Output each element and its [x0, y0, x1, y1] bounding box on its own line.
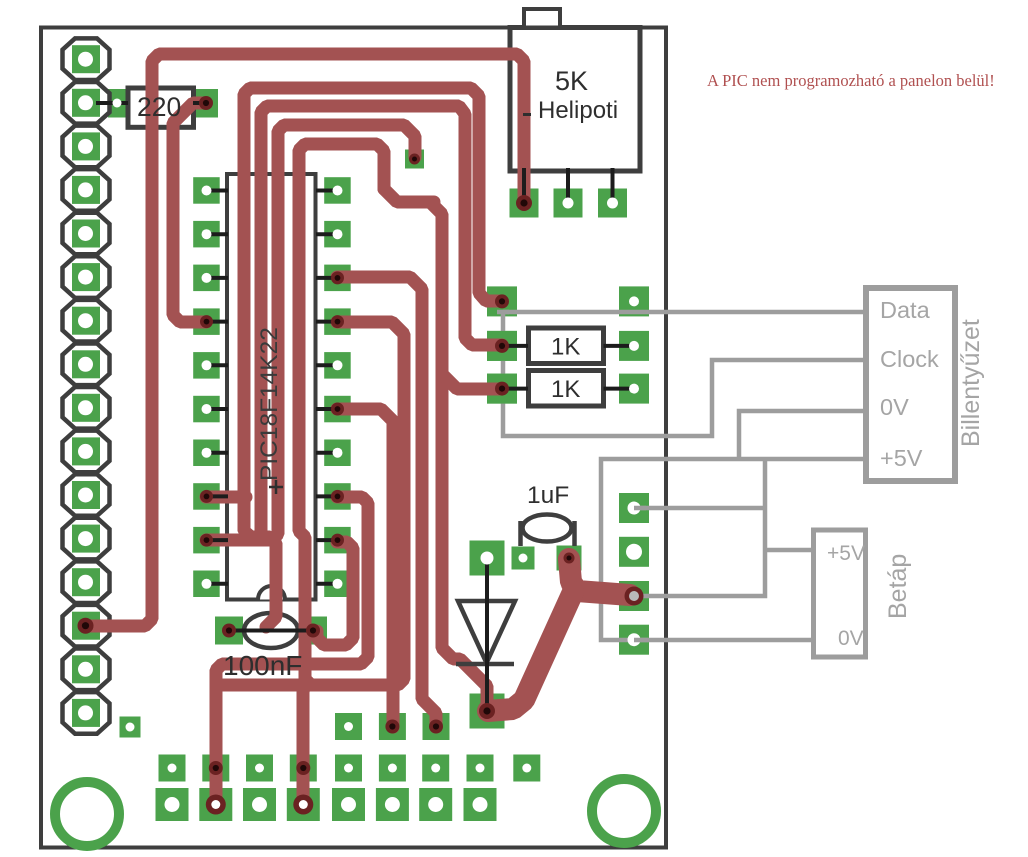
label origin cross	[269, 480, 283, 494]
hole SV1-8	[78, 357, 93, 372]
capacitor C1 1uF outline	[523, 515, 572, 542]
wire branch KL3	[442, 374, 502, 389]
connector SV1 16 octagonal pads	[63, 38, 110, 733]
plated hole r727b	[385, 720, 399, 734]
pad row768-172	[159, 755, 186, 782]
pad row805-259	[243, 788, 276, 821]
wire arc2 KL1 chain hook	[244, 88, 502, 627]
hole r805-348	[341, 797, 356, 812]
pad IC-L8	[193, 483, 220, 510]
pad row805-392	[376, 788, 409, 821]
plated hole PWR3	[625, 587, 644, 606]
plated hole KL1	[495, 294, 509, 308]
plated hole c1b	[564, 553, 575, 564]
svg-text:Data: Data	[880, 297, 931, 323]
pad IC-R7	[324, 440, 351, 467]
node Betap box	[814, 530, 866, 657]
capacitor C2 100nF outline	[244, 613, 298, 648]
pad KL3 re-emit over gray	[487, 374, 517, 404]
wire arc3 KL2 strand	[261, 106, 502, 535]
wire +5V betap line	[765, 548, 813, 553]
pad IC-R3	[324, 265, 351, 292]
wire IC-L8 join	[206, 491, 246, 504]
plated hole c2b	[306, 624, 320, 638]
pad IC-L10	[193, 571, 220, 598]
wire H685 left	[218, 679, 330, 692]
pad IC-R10	[324, 571, 351, 598]
pad heli3	[598, 189, 627, 218]
hole SV1-9	[78, 400, 93, 415]
pad cap1uF-b	[557, 546, 582, 571]
plated hole c2a	[222, 624, 236, 638]
plated hole r768-216	[209, 761, 223, 775]
wire 220 to IC-L4	[173, 103, 206, 322]
pad diode bottom	[470, 694, 505, 729]
pad row805-348	[332, 788, 365, 821]
pad IC-L2	[193, 221, 220, 248]
hole SV1-10	[78, 444, 93, 459]
plated hole heli1	[516, 195, 532, 211]
wire IC-R9 to 100nF-b	[317, 542, 353, 645]
pad IC-L9	[193, 527, 220, 554]
potentiometer 5K Helipoti body	[510, 28, 640, 172]
pad IC-R6	[324, 396, 351, 423]
hole PWR4	[628, 633, 641, 646]
pad row768-526	[513, 755, 540, 782]
hole SV1-3	[78, 139, 93, 154]
plated hole KL3	[495, 382, 509, 396]
pad row768-392	[379, 755, 406, 782]
hole SV1-16	[78, 705, 93, 720]
pad row768-215	[202, 755, 229, 782]
pad cap1uF-a	[512, 547, 535, 570]
pad KL2	[487, 331, 517, 361]
pad heli2	[554, 189, 583, 218]
plated hole IC-R9	[331, 534, 344, 547]
hole SV1-6	[78, 270, 93, 285]
component leads	[96, 103, 634, 631]
hole r805-480	[473, 797, 488, 812]
pad IC-R1	[324, 177, 351, 204]
pad row768-259	[246, 755, 273, 782]
pad via left	[120, 717, 141, 738]
svg-text:1K: 1K	[551, 334, 580, 361]
pad row727-436	[423, 713, 450, 740]
label Helipoti dash	[523, 113, 531, 116]
hole IC-R10	[333, 579, 343, 589]
svg-text:220: 220	[137, 92, 181, 122]
plated hole IC-R8	[331, 490, 344, 503]
pad IC-R4	[324, 308, 351, 335]
hole IC-R5	[333, 360, 343, 370]
hole r768-259	[255, 764, 264, 773]
hole r768-392	[388, 764, 397, 773]
pad via top	[405, 150, 424, 169]
hole IC-L6	[202, 404, 212, 414]
diode D1	[456, 601, 515, 664]
plated hole r727c	[429, 720, 443, 734]
pad KL3	[487, 374, 517, 404]
svg-text:A PIC nem programozható a pane: A PIC nem programozható a panelon belül!	[707, 71, 995, 90]
wire 0V betap line	[634, 638, 813, 643]
pad IC-L5	[193, 352, 220, 379]
hole r805-392	[385, 797, 400, 812]
hole IC-L2	[202, 229, 212, 239]
hole heli2	[563, 198, 574, 209]
svg-text:Betáp: Betáp	[884, 554, 912, 619]
hole SV1-13	[78, 575, 93, 590]
pad IC-L4	[193, 308, 220, 335]
pad KL1	[487, 286, 517, 316]
pad cap100nF-b	[299, 617, 327, 645]
plated hole 220-b	[199, 96, 213, 110]
pad IC-L7	[193, 440, 220, 467]
pad row805-172	[156, 788, 189, 821]
hole IC-L5	[202, 360, 212, 370]
hole r768-435	[431, 764, 440, 773]
hole PWR2	[626, 544, 642, 560]
wire x442 to diode	[430, 202, 487, 711]
pad row768-348	[335, 755, 362, 782]
hole IC-L3	[202, 273, 212, 283]
IC notch	[258, 586, 285, 600]
pad row727-348	[335, 713, 362, 740]
hole IC-R1	[333, 186, 343, 196]
svg-text:PIC18F14K22: PIC18F14K22	[256, 327, 283, 481]
hole KR3	[629, 384, 639, 394]
hole diode-top	[481, 552, 494, 565]
hole IC-R7	[333, 448, 343, 458]
mounting hole left	[55, 782, 119, 846]
pad row727-392	[379, 713, 406, 740]
hole r768-348	[344, 764, 353, 773]
hole r805-435	[428, 797, 443, 812]
hole r768-526	[522, 764, 531, 773]
hole IC-L10	[202, 579, 212, 589]
pad IC-R9	[324, 527, 351, 554]
pad row805-303	[287, 788, 320, 821]
plated hole r768-303	[296, 761, 310, 775]
pad row805-215	[199, 788, 232, 821]
pad row768-303	[290, 755, 317, 782]
wire 0V keyboard line	[601, 411, 866, 640]
pad PWR4	[619, 625, 649, 655]
hole SV1-12	[78, 531, 93, 546]
wire heli1 to SV1-14	[86, 54, 524, 626]
hole heli3	[607, 198, 618, 209]
resistor R1 220 body	[128, 88, 194, 127]
pad KR2	[619, 331, 649, 361]
plated hole IC-L8	[200, 490, 213, 503]
plated hole diode-bot	[479, 703, 495, 719]
pad KR1	[619, 286, 649, 316]
hole SV1-7	[78, 313, 93, 328]
pad KL2 re-emit over gray	[487, 331, 517, 361]
hole IC-L7	[202, 448, 212, 458]
resistor R2 1K body	[529, 328, 604, 364]
svg-text:Helipoti: Helipoti	[538, 97, 618, 124]
wire trunk	[384, 189, 434, 202]
pad IC-R8	[324, 483, 351, 510]
svg-text:Clock: Clock	[880, 346, 939, 372]
plated hole IC-L4	[200, 315, 213, 328]
plated hole SV1-14	[78, 618, 94, 634]
wire IC-R3 to row727-436	[337, 277, 436, 727]
pad IC-L6	[193, 396, 220, 423]
svg-text:+5V: +5V	[880, 445, 923, 471]
pad PWR3	[619, 581, 649, 611]
wire +5V pad line	[634, 506, 765, 511]
hole KR1	[629, 296, 639, 306]
plated hole IC-R3	[331, 271, 344, 284]
pad cap100nF-a	[215, 617, 243, 645]
pad diode top	[470, 541, 505, 576]
plated hole r805-215	[206, 795, 226, 815]
pad row768-480	[467, 755, 494, 782]
hole r768-172	[168, 764, 177, 773]
wire thick 1uF-b to PWR3	[569, 559, 630, 595]
pad IC-R5	[324, 352, 351, 379]
resistor R3 1K body	[529, 371, 604, 407]
wire thick diag to diode pad	[488, 592, 573, 711]
plated hole KL2	[495, 339, 509, 353]
potentiometer tab	[524, 9, 560, 28]
hole c1a	[519, 554, 528, 563]
hole r805-172	[165, 797, 180, 812]
pad PWR1	[619, 493, 649, 523]
hole IC-L1	[202, 186, 212, 196]
board outline	[41, 28, 666, 848]
pad PWR2	[619, 537, 649, 567]
pad IC-L1	[193, 177, 220, 204]
hole SV1-11	[78, 488, 93, 503]
resistor R1 220 pad band	[108, 89, 218, 118]
pad IC-L3	[193, 265, 220, 292]
plated hole IC-L9	[200, 534, 213, 547]
svg-text:0V: 0V	[838, 627, 864, 650]
hole r805-259	[252, 797, 267, 812]
plated hole via-top	[409, 154, 420, 165]
hole 220-a	[113, 99, 122, 108]
svg-text:+5V: +5V	[827, 542, 865, 565]
svg-text:Billentyűzet: Billentyűzet	[957, 319, 985, 447]
pad heli1	[510, 189, 539, 218]
wire arc IC-L9 to via-top	[206, 125, 415, 540]
plated hole IC-R6	[331, 403, 344, 416]
hole SV1-5	[78, 226, 93, 241]
wire arc4 loop to IC-R4	[299, 144, 404, 685]
hole IC-R2	[333, 229, 343, 239]
wire gray stubs over pad holes	[497, 312, 648, 640]
svg-text:100nF: 100nF	[223, 650, 302, 681]
hole SV1-4	[78, 182, 93, 197]
hole r768-480	[476, 764, 485, 773]
wire Data line	[503, 310, 866, 315]
plated hole r805-303	[293, 795, 313, 815]
svg-text:1uF: 1uF	[527, 482, 569, 509]
svg-text:5K: 5K	[555, 66, 588, 96]
wire +5V keyboard line	[634, 459, 765, 596]
plated hole IC-R4	[331, 315, 344, 328]
pad KR3	[619, 374, 649, 404]
mounting hole right	[592, 779, 656, 843]
hole via-left	[126, 723, 135, 732]
pad row805-480	[464, 788, 497, 821]
hole SV1-15	[78, 662, 93, 677]
hole KR2	[629, 341, 639, 351]
svg-text:0V: 0V	[880, 394, 909, 420]
pad IC-R2	[324, 221, 351, 248]
op IC U1 PIC18F14K22 body	[227, 174, 316, 600]
wire IC-R8 to row805-216	[216, 497, 368, 803]
hole SV1-2	[78, 95, 93, 110]
hole SV1-1	[78, 52, 93, 67]
pad row805-435	[419, 788, 452, 821]
hole r727a	[344, 722, 353, 731]
wire Clock line	[503, 312, 866, 436]
wire drop to row805-303	[303, 687, 304, 803]
node Billentyuzet box	[866, 288, 955, 481]
wire IC-R6 to row727-392	[337, 409, 393, 727]
svg-text:1K: 1K	[551, 376, 580, 403]
pad row768-435	[422, 755, 449, 782]
hole PWR1	[628, 502, 641, 515]
